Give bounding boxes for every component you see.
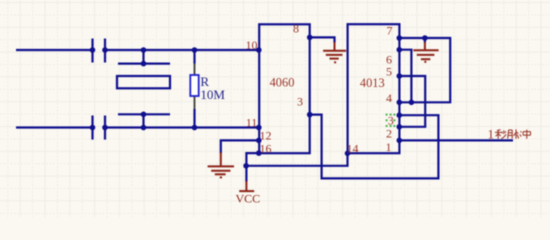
wire top to 4060 pin 10 [105, 49, 259, 51]
svg-text:16: 16 [260, 141, 272, 155]
svg-text:VCC: VCC [236, 192, 261, 206]
svg-text:1: 1 [386, 140, 392, 154]
node crystal top wire [141, 47, 147, 53]
node C2 right [102, 125, 108, 131]
node 4060 pin 10 [256, 47, 262, 53]
wire 4013 pin 6 to pin 4 row [399, 50, 411, 103]
crystal Y1 top plate [118, 62, 170, 64]
wire crystal bottom stub [142, 114, 144, 127]
node 4060 pin 11 [256, 125, 262, 131]
wire 4060 pin 12 to ground [221, 140, 259, 153]
wire bottom to 4060 pin 11 [105, 126, 259, 128]
resistor R1 pins (dark) [194, 64, 196, 110]
node 4013 pin 3 [397, 112, 403, 118]
node 4013 pin 5 [397, 73, 403, 79]
wire 4013 pin 5 to pin 2 [399, 76, 425, 127]
capacitor C1 right plate [104, 39, 106, 63]
wire 4013 pin 7 ground loop to pin 4 [399, 38, 450, 102]
node 4013 pin 6 [397, 47, 403, 53]
svg-text:5: 5 [386, 65, 392, 79]
wire top-left segment [16, 49, 93, 51]
node resistor bottom [192, 125, 198, 131]
node 4013 pin 2 [397, 124, 403, 130]
ground GND2 at 4013 pin 7 [413, 42, 438, 62]
capacitor C2 right plate [104, 116, 106, 140]
svg-text:2: 2 [386, 126, 392, 140]
node 4013 pin 4 [397, 100, 403, 106]
svg-text:4013: 4013 [360, 76, 385, 90]
node 4013 pin 14 [345, 151, 351, 157]
selection marks around pin 3 label [386, 114, 396, 127]
capacitor C1 left plate [91, 39, 93, 63]
node crystal top plate [141, 61, 147, 67]
wire crystal top stub [142, 50, 144, 64]
wire 4013 pin 1 output [399, 139, 513, 141]
IC U1 4060 body [259, 24, 310, 153]
svg-text:1: 1 [488, 127, 495, 142]
wire 4060 pin 16 to VCC line [246, 153, 258, 182]
svg-text:14: 14 [347, 142, 359, 156]
svg-text:3: 3 [297, 95, 303, 109]
ground GND3 at 4060 pin 12 [208, 152, 234, 177]
node C2 left [90, 125, 96, 131]
node 4060 pin 16 [256, 150, 262, 156]
node crystal bottom wire [141, 125, 147, 131]
node 4060 pin 8 [307, 35, 313, 41]
crystal Y1 bottom plate [118, 113, 170, 115]
wire bottom-left segment [16, 126, 93, 128]
wire resistor top stub [193, 50, 195, 64]
svg-text:10M: 10M [200, 87, 225, 102]
wire 4060 pin 8 to ground [310, 37, 335, 43]
node C1 left [90, 47, 96, 53]
power VCC symbol [239, 181, 254, 191]
svg-text:8: 8 [293, 22, 299, 36]
node pin6 joins pin4 row [409, 100, 415, 106]
wire 4013 pin7 ground stem top [424, 38, 426, 43]
node C1 right [102, 47, 108, 53]
node 4060 pin 3 [307, 112, 313, 118]
wire VCC junction to 4013 pin 14 [246, 153, 347, 166]
net label glyph 脉 [508, 129, 519, 138]
net label glyph 冲 [520, 130, 531, 139]
wire 4060 pin 3 to 4013 pin 3 [310, 115, 439, 179]
crystal Y1 body [117, 76, 170, 88]
svg-text:10: 10 [246, 38, 258, 52]
node crystal bottom plate [141, 112, 147, 118]
svg-text:4060: 4060 [270, 75, 295, 89]
net label glyph 秒 [495, 130, 506, 139]
capacitor C2 left plate [91, 116, 93, 140]
node ground stem pin 7 [422, 35, 428, 41]
node 4060 pin 12 [256, 138, 262, 144]
node 4013 pin 7 [397, 35, 403, 41]
svg-text:4: 4 [386, 91, 392, 105]
node resistor top [192, 47, 198, 53]
svg-text:11: 11 [246, 115, 258, 129]
ground GND1 at 4060 pin 8 [323, 42, 346, 62]
wire resistor bottom stub [193, 109, 195, 128]
node 4013 pin 1 [397, 138, 403, 144]
svg-text:7: 7 [387, 24, 393, 38]
resistor R1 body [190, 75, 198, 96]
node VCC junction [243, 163, 249, 169]
IC U2 4013 body [348, 24, 400, 153]
